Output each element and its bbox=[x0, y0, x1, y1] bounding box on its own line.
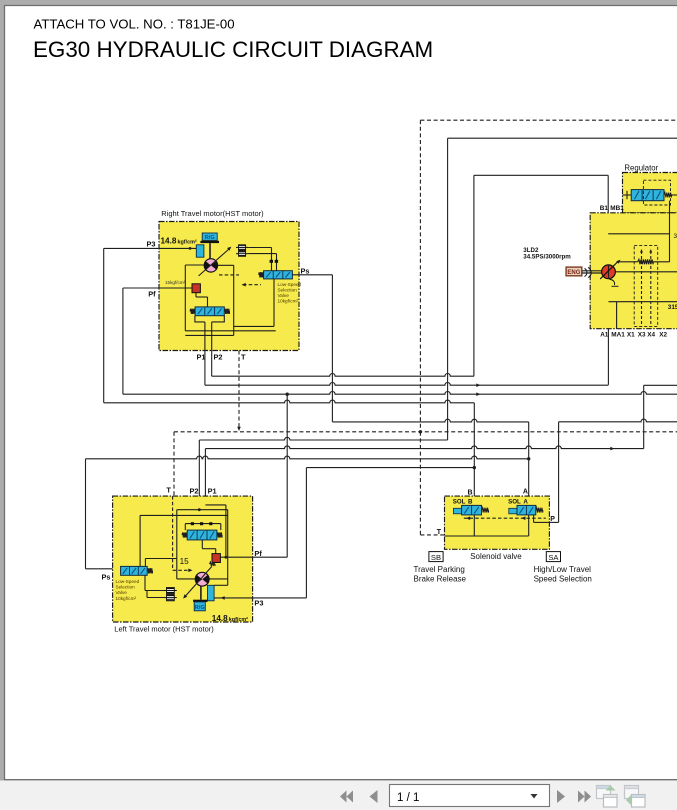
svg-text:ENG: ENG bbox=[567, 270, 580, 276]
svg-text:A: A bbox=[523, 488, 528, 495]
svg-text:10kgf/cm²: 10kgf/cm² bbox=[116, 596, 137, 601]
wire Ps right down bbox=[331, 275, 333, 422]
pump internal B1 link bbox=[608, 233, 669, 235]
wire top link to B1 bbox=[474, 174, 608, 176]
svg-text:MB1: MB1 bbox=[610, 205, 624, 212]
wire Ps left drop bbox=[85, 459, 87, 569]
motor stem left bbox=[200, 586, 202, 600]
svg-text:P: P bbox=[550, 516, 555, 523]
wire Pf right down bbox=[122, 288, 124, 394]
wire h9 Ps-left bus bbox=[86, 456, 529, 459]
svg-text:P1: P1 bbox=[208, 487, 217, 496]
svg-text:B: B bbox=[468, 499, 473, 506]
toolbar first page button bbox=[340, 791, 347, 803]
svg-text:T: T bbox=[166, 486, 171, 495]
wire P3 left port bbox=[214, 597, 306, 599]
svg-text:15kgf/cm²: 15kgf/cm² bbox=[165, 280, 186, 285]
wire A1 riser bbox=[607, 234, 609, 385]
wire h4 brake bus bbox=[104, 400, 475, 403]
svg-text:kgf/cm²: kgf/cm² bbox=[229, 617, 248, 623]
svg-text:Selection: Selection bbox=[278, 287, 298, 292]
svg-text:T: T bbox=[241, 353, 246, 362]
wire Pf left riser bbox=[286, 394, 288, 557]
svg-text:Ps: Ps bbox=[301, 266, 310, 275]
loop circle left right-motor bbox=[185, 264, 204, 266]
dashed T line right motor bbox=[238, 351, 240, 430]
svg-text:EG30 HYDRAULIC CIRCUIT DIAGRAM: EG30 HYDRAULIC CIRCUIT DIAGRAM bbox=[33, 37, 433, 62]
wire solenoid B drop bbox=[473, 403, 475, 496]
svg-text:Pf: Pf bbox=[254, 549, 262, 558]
parking brake R/G left bbox=[194, 602, 205, 611]
svg-text:kgf/cm²: kgf/cm² bbox=[178, 239, 197, 245]
svg-text:Pf: Pf bbox=[148, 289, 156, 298]
svg-text:B: B bbox=[468, 489, 473, 496]
pilot dash right motor bbox=[219, 274, 239, 276]
solenoid internal bus bbox=[473, 515, 475, 536]
junction dashed bus bbox=[419, 430, 422, 433]
wire P1 left riser bbox=[204, 449, 206, 505]
svg-text:SA: SA bbox=[548, 553, 559, 562]
wire h3 Pf bus bbox=[123, 392, 677, 395]
svg-text:R/G: R/G bbox=[195, 605, 205, 611]
wire h5 pilot speed bus bbox=[332, 419, 528, 422]
svg-text:X3: X3 bbox=[638, 331, 646, 338]
enclosure left travel motor bbox=[113, 496, 253, 622]
svg-text:P2: P2 bbox=[190, 487, 199, 496]
svg-text:P3: P3 bbox=[254, 599, 263, 608]
valve lower brackets right bbox=[195, 316, 205, 322]
engine label box bbox=[566, 267, 582, 276]
low speed selection valve right bbox=[259, 272, 264, 277]
svg-text:SB: SB bbox=[431, 553, 441, 562]
wire h8 P1-left bus bbox=[205, 446, 643, 449]
dashed drop to solenoid T bbox=[419, 432, 421, 535]
dashed pilot line left bbox=[419, 120, 421, 432]
valve to relief left bbox=[201, 540, 203, 549]
enclosure regulator bbox=[623, 173, 677, 213]
svg-text:X2: X2 bbox=[659, 331, 667, 338]
toolbar previous page button bbox=[370, 790, 378, 803]
tag SB bbox=[429, 552, 443, 562]
solenoid internal pilot dash bbox=[464, 517, 546, 519]
wires check to speed valve bbox=[248, 247, 271, 249]
wire Pf left port bbox=[220, 556, 287, 558]
wire P2 right to pump B1 riser bbox=[211, 351, 213, 377]
swash arrow right motor bbox=[199, 249, 229, 276]
svg-text:R/G: R/G bbox=[205, 235, 215, 241]
dashed pilot bus horizontal bbox=[174, 431, 677, 433]
directional valve left motor bbox=[182, 532, 187, 537]
wire P1 right drop bbox=[204, 322, 206, 385]
wire riser B net bbox=[473, 175, 475, 376]
wire riser x643 bbox=[643, 385, 645, 448]
toolbar page number box bbox=[390, 785, 550, 807]
svg-text:Travel Parking: Travel Parking bbox=[414, 565, 465, 574]
brake valve right (cyan) bbox=[196, 245, 204, 257]
relief valve right (red) bbox=[192, 284, 200, 293]
svg-text:Left Travel motor (HST motor): Left Travel motor (HST motor) bbox=[114, 625, 214, 634]
main pump bbox=[602, 265, 616, 279]
svg-text:1 / 1: 1 / 1 bbox=[397, 792, 419, 804]
svg-text:MA1: MA1 bbox=[611, 331, 625, 338]
toolbar last page button bbox=[578, 791, 585, 803]
svg-text:B1: B1 bbox=[600, 205, 609, 212]
wire top bus right bbox=[448, 137, 677, 139]
wire solenoid A riser bbox=[528, 422, 530, 496]
relief valve left (red) bbox=[212, 554, 220, 563]
toolbar disabled icon 2 bbox=[625, 786, 639, 799]
check valves left motor bbox=[167, 588, 175, 594]
svg-text:Right Travel motor(HST motor): Right Travel motor(HST motor) bbox=[161, 209, 264, 218]
svg-text:Low-Speed: Low-Speed bbox=[278, 282, 302, 287]
wire h1 P2-right bus bbox=[212, 374, 474, 377]
solenoid valve B bbox=[453, 508, 461, 514]
servo coil bbox=[618, 261, 638, 263]
engine coupling bbox=[585, 269, 587, 277]
hydraulic motor left bbox=[195, 572, 209, 586]
svg-text:P3: P3 bbox=[147, 239, 156, 248]
loop circle right right-motor bbox=[218, 264, 234, 266]
svg-text:14.8: 14.8 bbox=[212, 614, 228, 623]
pump lower line bbox=[609, 301, 677, 303]
swash arrow left motor bbox=[186, 566, 212, 596]
wire P3 left link bbox=[306, 467, 474, 469]
enclosure right travel motor bbox=[159, 222, 299, 351]
hydraulic motor right bbox=[204, 259, 217, 272]
pilot dash left motor bbox=[172, 496, 174, 570]
svg-text:A1: A1 bbox=[600, 331, 609, 338]
wire h2 P1-right bus bbox=[205, 383, 609, 386]
svg-text:Regulator: Regulator bbox=[624, 164, 658, 173]
low speed selection valve left bbox=[121, 566, 148, 575]
pilot dashed box pump bbox=[634, 245, 658, 326]
wire h7 P2-left bus bbox=[199, 437, 447, 440]
motor shaft stem right bbox=[209, 243, 211, 259]
svg-text:Brake Release: Brake Release bbox=[414, 575, 467, 584]
svg-text:Valve: Valve bbox=[116, 590, 128, 595]
wire riser to top-left net bbox=[447, 138, 449, 440]
toolbar next page button bbox=[557, 790, 565, 803]
svg-text:34.5PS/3000rpm: 34.5PS/3000rpm bbox=[523, 253, 571, 260]
check valves right motor bbox=[239, 245, 246, 250]
pilot lines X3 X4 bbox=[641, 251, 643, 326]
toolbar background bbox=[0, 781, 677, 810]
svg-text:Solenoid valve: Solenoid valve bbox=[470, 552, 522, 561]
regulator dashed pilot box bbox=[643, 180, 670, 205]
svg-text:Valve: Valve bbox=[278, 293, 290, 298]
svg-text:14.8: 14.8 bbox=[161, 236, 177, 245]
svg-text:Low-Speed: Low-Speed bbox=[116, 579, 140, 584]
svg-text:P2: P2 bbox=[214, 353, 223, 362]
dashed pilot line top bbox=[420, 119, 677, 121]
drive shaft bbox=[582, 270, 602, 272]
svg-text:315: 315 bbox=[668, 304, 677, 311]
svg-text:A: A bbox=[523, 499, 528, 506]
wire B1 drop bbox=[607, 175, 609, 234]
svg-text:Ps: Ps bbox=[102, 573, 111, 582]
svg-text:15: 15 bbox=[180, 557, 190, 566]
svg-text:Selection: Selection bbox=[116, 585, 136, 590]
enclosure pump bbox=[590, 213, 677, 329]
regulator valve bbox=[623, 194, 632, 196]
svg-text:SOL: SOL bbox=[508, 499, 521, 506]
svg-text:Speed Selection: Speed Selection bbox=[534, 575, 592, 584]
wire h5b P supply bus bbox=[559, 419, 677, 422]
svg-text:3L: 3L bbox=[674, 233, 677, 240]
directional valve right motor bbox=[190, 309, 195, 314]
brake valve left (cyan) bbox=[208, 585, 215, 601]
parking brake R/G right bbox=[202, 233, 217, 240]
dashed T line left motor bbox=[173, 432, 175, 496]
toolbar disabled icon 1 bbox=[597, 786, 611, 799]
wire P drop to solenoid bbox=[558, 422, 560, 523]
wire P2 left riser bbox=[198, 440, 200, 510]
wire P3 right down bbox=[103, 248, 105, 402]
enclosure solenoid valve bbox=[445, 496, 550, 549]
svg-text:ATTACH TO VOL. NO. : T81JE-00: ATTACH TO VOL. NO. : T81JE-00 bbox=[34, 17, 235, 32]
pump outlet line bbox=[615, 271, 677, 273]
svg-text:P1: P1 bbox=[197, 353, 206, 362]
svg-text:X4: X4 bbox=[647, 331, 655, 338]
svg-text:10kgf/cm²: 10kgf/cm² bbox=[278, 299, 299, 304]
solenoid valve A bbox=[509, 508, 517, 514]
svg-text:High/Low Travel: High/Low Travel bbox=[534, 565, 592, 574]
svg-text:SOL: SOL bbox=[453, 499, 466, 506]
port lines P1 P2 right bbox=[211, 322, 213, 351]
tag SA bbox=[546, 552, 560, 562]
left motor internal bus bbox=[177, 509, 228, 511]
svg-text:T: T bbox=[437, 529, 442, 536]
check bracket above valve left bbox=[185, 523, 221, 525]
svg-text:X1: X1 bbox=[627, 331, 635, 338]
